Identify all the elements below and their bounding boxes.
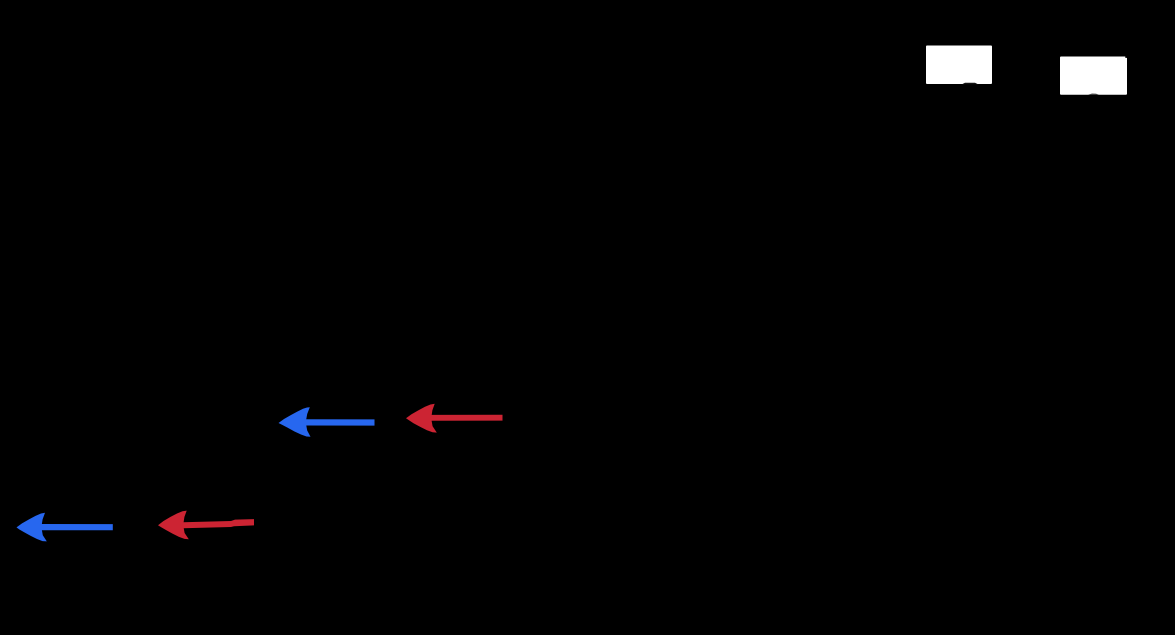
shaft D (slight rise toward tail) xyxy=(183,519,254,528)
corner step top-right of white box 2 xyxy=(1125,56,1127,58)
blue arrow C (lower pair, left-pointing) xyxy=(17,513,113,542)
red arrow D (lower pair, left-pointing, slightly bent shaft) xyxy=(158,511,254,540)
arrowhead A xyxy=(279,407,311,437)
shaft B xyxy=(430,415,503,421)
red arrow B (upper pair, left-pointing) xyxy=(406,404,503,433)
arrowhead D xyxy=(158,511,189,540)
notch at bottom of white box 1 xyxy=(962,83,978,85)
white box 2 (top right, right) xyxy=(1060,56,1127,94)
arrowhead B xyxy=(406,404,437,433)
notch at bottom of white box 2 xyxy=(1088,94,1099,95)
arrowhead C xyxy=(17,513,47,542)
shaft C xyxy=(41,524,113,530)
white box 1 (top right, left) xyxy=(926,46,992,85)
shaft A xyxy=(304,419,375,425)
blue arrow A (upper pair, left-pointing) xyxy=(279,407,375,437)
